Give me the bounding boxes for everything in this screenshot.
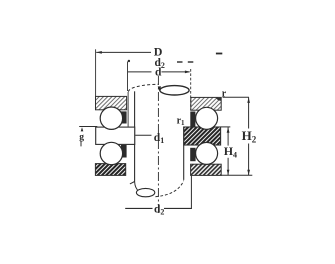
dimension d arrowhead <box>185 71 191 74</box>
dimension d line left <box>128 71 152 73</box>
dimension D extension line (left) <box>95 49 97 96</box>
center-right shaft washer (dark hatch) <box>184 127 221 145</box>
label d1 leader <box>135 134 151 136</box>
bottom dimension d2 line right <box>164 207 192 209</box>
dash right of D <box>216 53 222 55</box>
center-left shaft washer <box>96 127 135 144</box>
sleeve right edge <box>183 127 185 180</box>
bottom-right cage section <box>190 148 195 161</box>
top-right housing washer (light hatch) <box>191 97 221 110</box>
svg-text:g: g <box>79 132 84 142</box>
bottom-right housing washer (dark hatch) <box>191 164 222 175</box>
dimension d2 extension line <box>127 62 129 92</box>
sleeve left edge <box>134 91 136 181</box>
dimension H4 line <box>227 127 229 146</box>
bottom dimension extension line <box>190 176 192 209</box>
top-left ball <box>100 107 122 129</box>
sleeve top face ellipse <box>160 86 189 95</box>
bottom dimension d2 line left <box>125 207 152 209</box>
dimension H2 line <box>248 97 250 128</box>
sleeve bottom hidden arc (dashed) <box>155 181 183 197</box>
dimension g line below <box>80 141 82 147</box>
dimension d2 dot <box>128 60 130 62</box>
bottom-right ball <box>196 142 218 164</box>
svg-text:r: r <box>222 89 227 100</box>
top-right ball <box>196 107 218 129</box>
H2 top extension line <box>223 96 249 98</box>
dimension g extension line top <box>79 126 97 128</box>
top-left housing washer (light hatch) <box>96 96 127 109</box>
d2 trailing dashes <box>177 61 183 63</box>
centerline (bearing axis) <box>157 76 159 214</box>
H4 top extension tick <box>221 126 231 128</box>
dimension D line <box>96 51 151 53</box>
dimension d extension line (right, dashed) <box>190 69 192 111</box>
sleeve bottom face small ellipse <box>135 182 139 192</box>
top-right cage section <box>190 112 195 128</box>
top-right washer corner chamfer mark <box>216 98 221 101</box>
dimension D arrowhead <box>96 51 102 54</box>
H2/H4 bottom extension line <box>221 174 252 176</box>
dimension g arrowhead <box>81 127 84 131</box>
sleeve left bottom chamfer tick <box>130 182 135 184</box>
top-left cage section <box>121 111 127 123</box>
arrow on axis pointing to sleeve top face <box>158 86 161 91</box>
sleeve outer left edge strip <box>127 92 129 127</box>
svg-text:d: d <box>155 66 162 78</box>
bottom-left ball <box>100 142 122 164</box>
bottom-left housing washer (dark hatch) <box>95 164 125 176</box>
dimension d line right <box>162 71 190 73</box>
bottom-left cage section <box>121 145 127 158</box>
sleeve top hidden arc (dashed quarter ellipse) <box>128 84 158 92</box>
